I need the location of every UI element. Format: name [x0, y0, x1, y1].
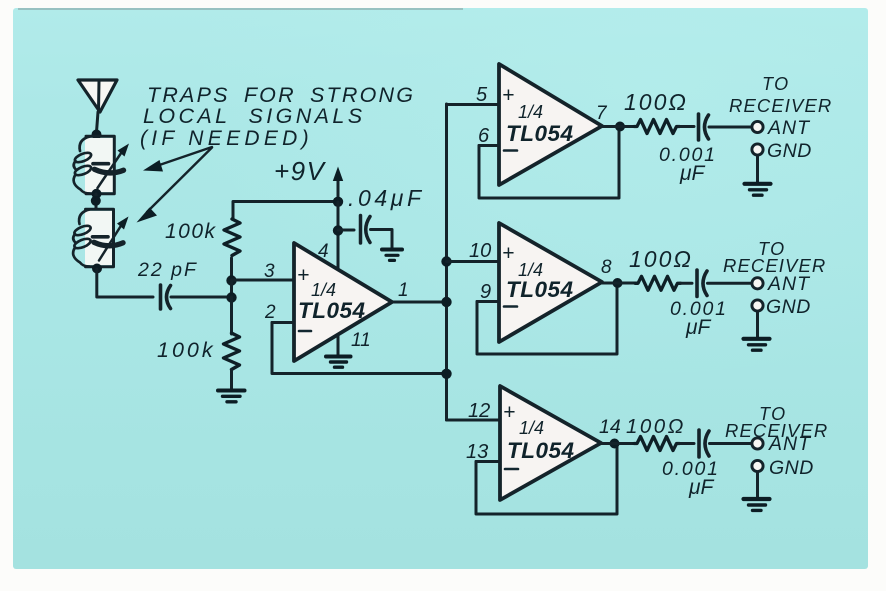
svg-text:+: + — [502, 84, 514, 107]
label U1a minus — [299, 330, 311, 333]
node +9V rail — [333, 197, 343, 207]
wire +9V down to pin 4 — [337, 202, 340, 268]
svg-text:1/4: 1/4 — [311, 280, 336, 300]
svg-text:12: 12 — [468, 400, 490, 422]
annotation arrow to trap 2 — [137, 148, 213, 223]
node trap 2 bottom — [92, 264, 102, 274]
svg-text:GND: GND — [767, 140, 812, 162]
wire pin 3 — [232, 279, 294, 282]
op-amp U1b 1/4 TL054 (top) — [499, 64, 602, 185]
node between traps (upper) — [92, 189, 102, 199]
wire .04uF to ground — [371, 230, 393, 249]
capacitor 22pF — [161, 285, 171, 309]
wire output 7 — [602, 125, 636, 128]
capacitor C5 0.001uF — [697, 270, 707, 297]
variable capacitor C2 (trap 2) — [93, 217, 129, 261]
ground (bypass cap) — [382, 250, 402, 261]
label U1b minus — [504, 149, 517, 152]
svg-text:11: 11 — [351, 330, 371, 351]
node bus/pin10 — [441, 256, 451, 266]
svg-text:5: 5 — [476, 84, 488, 106]
trap 1 loop frame — [85, 138, 113, 192]
svg-text:14: 14 — [599, 416, 621, 438]
node between traps (lower) — [91, 196, 101, 206]
svg-text:1/4: 1/4 — [519, 418, 544, 438]
wire GND terminal to ground (middle) — [756, 312, 759, 338]
node pin3 tap — [226, 275, 236, 285]
svg-text:GND: GND — [769, 457, 814, 479]
wire C6 to ANT terminal — [710, 442, 752, 445]
svg-text:RECEIVER: RECEIVER — [729, 95, 832, 116]
wire between traps — [95, 194, 98, 208]
svg-text:100k: 100k — [157, 338, 216, 362]
svg-text:1: 1 — [398, 280, 409, 301]
svg-text:μF: μF — [685, 316, 712, 339]
svg-text:TL054: TL054 — [506, 121, 574, 146]
capacitor C6 0.001uF — [699, 430, 709, 457]
svg-text:.04μF: .04μF — [348, 185, 425, 211]
node output 14 — [610, 439, 620, 449]
svg-text:1/4: 1/4 — [518, 102, 543, 122]
op-amp U1a 1/4 TL054 (input buffer) — [294, 243, 392, 361]
node antenna/trap junction — [92, 130, 102, 140]
svg-text:TO: TO — [762, 74, 790, 94]
inductor L2 (trap 2 coil) — [73, 209, 92, 266]
wire feedback U1d — [476, 446, 617, 514]
inductor L1 (trap 1 coil) — [74, 136, 93, 193]
wire antenna stem — [97, 112, 99, 132]
wire GND terminal to ground (bottom) — [756, 472, 759, 497]
svg-text:GND: GND — [766, 296, 811, 318]
wire pin 2 stub — [272, 321, 293, 324]
wire pin 5 stub — [447, 103, 499, 106]
resistor R5 100ohm — [634, 437, 680, 451]
svg-text:(IF NEEDED): (IF NEEDED) — [140, 127, 313, 150]
node output 8 — [613, 278, 623, 288]
wire distribution bus — [445, 104, 448, 420]
svg-text:3: 3 — [264, 261, 275, 282]
svg-text:+9V: +9V — [274, 156, 327, 186]
wire to R2 — [230, 297, 233, 334]
resistor R1 100k (upper) — [224, 219, 240, 256]
terminal GND (middle) — [752, 300, 763, 311]
wire R4 to C5 — [680, 282, 692, 285]
svg-text:TL054: TL054 — [507, 438, 575, 463]
wire C5 to ANT terminal — [708, 282, 752, 285]
svg-text:6: 6 — [478, 125, 490, 147]
resistor R3 100ohm — [634, 120, 680, 134]
wire C4 to ANT terminal — [709, 126, 751, 129]
wire feedback U1a — [272, 323, 444, 374]
svg-text:LOCAL SIGNALS: LOCAL SIGNALS — [143, 104, 366, 128]
svg-text:4: 4 — [318, 241, 329, 262]
svg-text:TL054: TL054 — [298, 298, 366, 323]
svg-text:μF: μF — [688, 476, 715, 499]
svg-text:100Ω: 100Ω — [629, 246, 693, 272]
resistor R4 100ohm — [635, 276, 681, 290]
wire output pin 1 — [392, 301, 446, 304]
node bypass cap tap — [333, 225, 343, 235]
wire trap bottom to 22pF — [97, 269, 153, 297]
wire R5 to C6 — [679, 442, 694, 445]
wire pin 10 stub — [447, 260, 499, 263]
wire pin 9 stub — [477, 300, 498, 303]
op-amp U1d 1/4 TL054 (bottom) — [500, 386, 601, 500]
terminal ANT (bottom) — [752, 438, 763, 449]
svg-text:+: + — [297, 264, 309, 287]
svg-text:ANT: ANT — [768, 433, 812, 455]
wire pin 6 stub — [479, 144, 498, 147]
resistor R2 100k (lower) — [224, 333, 240, 370]
svg-text:+: + — [503, 401, 515, 424]
wire GND terminal to ground — [756, 156, 759, 183]
svg-text:ANT: ANT — [767, 117, 811, 139]
svg-text:7: 7 — [596, 103, 608, 124]
wire pin 12 stub — [447, 419, 500, 422]
svg-text:+: + — [502, 242, 514, 265]
node output 7 — [615, 122, 625, 132]
svg-text:TL054: TL054 — [506, 277, 574, 302]
wire R2 to ground — [230, 370, 233, 389]
node bus/feedback1 — [441, 369, 451, 379]
svg-text:10: 10 — [469, 240, 491, 262]
capacitor .04uF — [361, 216, 371, 244]
svg-text:13: 13 — [466, 441, 488, 463]
capacitor C4 0.001uF — [699, 114, 709, 140]
wire to .04uF — [338, 229, 354, 232]
node 22pF junction — [226, 292, 236, 302]
ground pin 11 — [326, 336, 351, 367]
annotation arrow to trap 1 — [143, 147, 212, 172]
variable capacitor C1 (trap 1) — [93, 144, 129, 189]
terminal GND (bottom) — [752, 460, 763, 471]
wire node to node — [230, 280, 233, 297]
trap 2 loop frame — [85, 211, 112, 265]
svg-text:22 pF: 22 pF — [137, 259, 198, 281]
terminal ANT (top) — [752, 121, 763, 132]
antenna — [78, 80, 117, 112]
wire output 14 — [601, 442, 636, 445]
wire feedback U1c — [477, 285, 617, 354]
svg-text:2: 2 — [264, 302, 276, 323]
+9V supply arrow — [333, 167, 343, 203]
ground (below R2) — [218, 391, 245, 402]
wire pin 13 stub — [476, 460, 499, 463]
terminal ANT (middle) — [752, 278, 763, 289]
ground (bottom receiver) — [744, 499, 770, 510]
wire R1 to node — [230, 258, 233, 280]
wire output 8 — [602, 282, 637, 285]
svg-text:100Ω: 100Ω — [624, 89, 688, 115]
label U1d minus — [505, 468, 518, 471]
ground (middle receiver) — [744, 339, 770, 350]
wire feedback U1b — [479, 128, 619, 198]
svg-text:ANT: ANT — [767, 273, 811, 295]
svg-text:100k: 100k — [165, 220, 217, 243]
wire +9V rail horizontal — [233, 202, 336, 220]
label U1c minus — [504, 305, 517, 308]
wire 22pF to divider node — [171, 296, 229, 299]
svg-text:8: 8 — [601, 257, 612, 278]
ground (top receiver) — [745, 184, 771, 195]
node bus/output1 — [441, 297, 451, 307]
svg-text:9: 9 — [480, 281, 491, 303]
terminal GND (top) — [752, 144, 763, 155]
svg-text:100Ω: 100Ω — [626, 415, 686, 438]
op-amp U1c 1/4 TL054 (middle) — [499, 223, 602, 342]
wire R3 to C4 — [679, 125, 694, 128]
svg-text:μF: μF — [679, 162, 706, 185]
